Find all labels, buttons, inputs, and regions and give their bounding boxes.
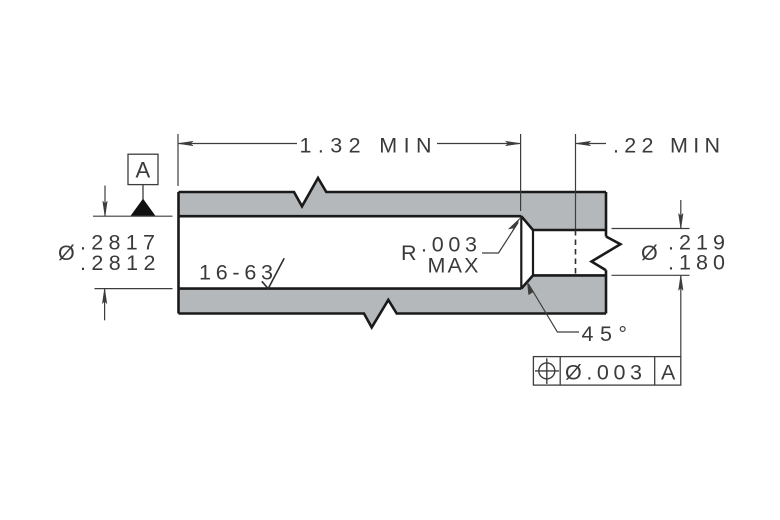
extension line at chamfer for 1.32 dim: [520, 134, 522, 211]
arrow left of 1.32: [178, 141, 193, 145]
arrow left-pointing of .22: [576, 141, 591, 145]
part outline: left end face: [177, 192, 180, 314]
dimension line 1.32 left segment: [178, 143, 297, 145]
svg-text:Ø: Ø: [641, 241, 658, 265]
chamfer edge vertical line: [520, 216, 522, 288]
svg-text:16-63: 16-63: [199, 261, 273, 285]
datum filled triangle: [132, 200, 155, 216]
chamfer end vertical line: [532, 230, 534, 275]
break line at right end of bore: [592, 237, 621, 271]
arrowhead of 45 deg leader: [527, 282, 535, 295]
datum A frame: [128, 154, 158, 184]
position symbol horizontal crosshair: [535, 370, 559, 372]
feature control frame divider 2: [654, 357, 656, 386]
leader for 45 deg chamfer: [529, 284, 580, 332]
part section upper wall (gray fill): [179, 178, 607, 230]
large bore top edge: [179, 215, 522, 218]
down arrowhead left dim: [103, 201, 107, 216]
up arrow stem below right dim joining control frame: [680, 275, 682, 356]
svg-text:45°: 45°: [582, 322, 628, 346]
position symbol vertical crosshair: [546, 358, 548, 384]
arrow right of 1.32: [506, 141, 521, 145]
hidden depth dashed line: [575, 230, 577, 275]
up arrowhead right dim: [679, 275, 683, 290]
svg-text:A: A: [661, 360, 676, 384]
part outline: right edge upper: [605, 192, 608, 237]
surface finish check mark: [262, 258, 284, 288]
extension line top of left diameter dim: [93, 215, 173, 217]
arrowhead of R.003 leader: [509, 218, 520, 231]
dimension line .22: [576, 143, 607, 145]
extension line bottom of left diameter dim: [95, 288, 173, 290]
svg-text:A: A: [136, 158, 151, 183]
feature control frame box: [533, 357, 680, 386]
svg-text:Ø.003: Ø.003: [565, 360, 642, 384]
svg-text:R: R: [401, 241, 417, 265]
up arrow stem below left dim: [104, 289, 106, 321]
down arrowhead right dim: [679, 214, 683, 229]
small bore bottom edge: [533, 274, 606, 277]
extension line left of 1.32 dim: [177, 134, 179, 186]
down arrow stem above right dim: [680, 200, 682, 229]
extension line at drill depth for .22 dim: [575, 134, 577, 229]
large bore bottom edge: [179, 287, 522, 290]
leader for R.003 MAX: [482, 222, 518, 253]
datum stem: [142, 185, 144, 200]
svg-text:MAX: MAX: [428, 254, 479, 278]
chamfer lower 45 deg face: [521, 275, 533, 288]
small bore top edge: [533, 229, 606, 232]
part outline: top edge with break line: [179, 178, 607, 206]
chamfer upper 45 deg face: [521, 216, 533, 230]
part section lower wall (gray fill): [179, 275, 607, 327]
svg-text:.2812: .2812: [80, 251, 156, 275]
down arrow stem above left dim: [104, 186, 106, 217]
extension line bottom of right diameter dim: [612, 274, 690, 276]
svg-text:Ø: Ø: [58, 241, 75, 265]
feature control frame divider 1: [559, 357, 561, 386]
part outline: bottom edge with break line: [179, 300, 607, 328]
position symbol circle: [539, 363, 555, 379]
extension line top of right diameter dim: [612, 228, 690, 230]
up arrowhead left dim: [102, 289, 106, 304]
dimension line 1.32 right segment: [437, 143, 521, 145]
part outline: right edge lower: [605, 270, 608, 313]
